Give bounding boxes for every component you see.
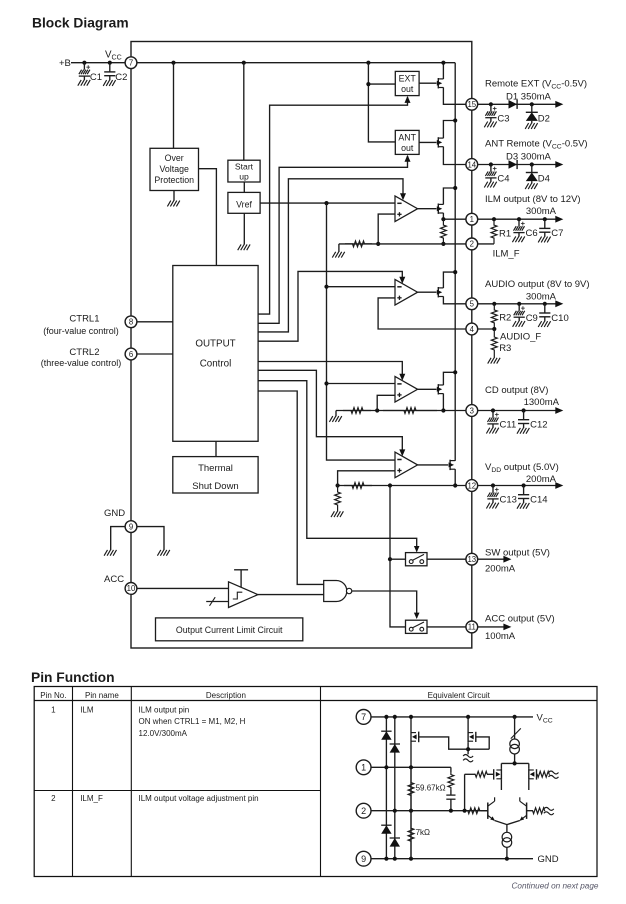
- equiv junction C2: [409, 809, 413, 813]
- wire pin4 output: [477, 328, 494, 330]
- switch ACC: [406, 620, 428, 633]
- svg-text:Shut Down: Shut Down: [192, 481, 238, 492]
- pin 15: [466, 98, 478, 110]
- svg-text:AUDIO_F: AUDIO_F: [500, 332, 541, 343]
- svg-text:1: 1: [470, 215, 474, 224]
- resistor CD out-side: [383, 408, 437, 414]
- svg-text:C12: C12: [530, 420, 547, 431]
- arrow into CD opamp: [399, 374, 405, 381]
- svg-text:10: 10: [127, 584, 136, 593]
- svg-text:ANT Remote (VCC-0.5V): ANT Remote (VCC-0.5V): [485, 139, 588, 151]
- diode D3: [509, 160, 518, 169]
- junction OVP tap: [171, 61, 175, 65]
- pin 8 CTRL1: [125, 316, 137, 328]
- gate NAND: [324, 581, 347, 602]
- svg-text:R1: R1: [499, 229, 511, 240]
- block Output Current Limit Circuit: [156, 618, 303, 641]
- junction C10: [543, 302, 547, 306]
- svg-text:CTRL1: CTRL1: [69, 314, 99, 325]
- transistor Q left: [487, 803, 489, 819]
- svg-text:9: 9: [129, 522, 133, 531]
- wire ILM drain: [443, 188, 455, 205]
- transistor VDD: [449, 460, 451, 470]
- wire AUDIO drain: [443, 272, 455, 288]
- equiv wire GND: [371, 858, 533, 860]
- ground CD feedback: [335, 411, 337, 417]
- svg-text:200mA: 200mA: [485, 564, 516, 575]
- equiv junction B2: [393, 809, 397, 813]
- wire diff left gate: [465, 773, 476, 775]
- svg-text:Control: Control: [200, 359, 232, 370]
- svg-text:ILM_F: ILM_F: [493, 249, 520, 260]
- wire OVP drop: [173, 63, 175, 149]
- table col1 line: [72, 687, 74, 877]
- capacitor C4: [490, 165, 492, 172]
- capacitor C10: [544, 304, 546, 313]
- wire CD source to pin3: [443, 394, 466, 411]
- wire enable EXT: [258, 97, 407, 314]
- svg-text:5: 5: [470, 300, 475, 309]
- wire pin2 output: [477, 243, 494, 245]
- equiv diode A-bottom: [381, 825, 391, 834]
- junction C13: [491, 483, 495, 487]
- equiv pin 2: [356, 803, 371, 818]
- wire ref vertical: [327, 203, 396, 460]
- junction C11: [491, 408, 495, 412]
- capacitor C11: [492, 411, 494, 418]
- wire EXT gate: [419, 82, 436, 84]
- svg-text:R3: R3: [499, 343, 511, 354]
- wire comparator out: [258, 594, 324, 596]
- wire control-thermal: [215, 441, 217, 456]
- svg-text:3: 3: [470, 406, 474, 415]
- svg-text:GND: GND: [104, 508, 125, 519]
- svg-text:ILM output (8V to 12V): ILM output (8V to 12V): [485, 194, 581, 205]
- transistor ANT: [437, 137, 439, 147]
- current source CS2: [502, 832, 512, 842]
- svg-text:300mA: 300mA: [526, 206, 557, 217]
- wire ILM_F line: [339, 243, 466, 245]
- current source CS1: [514, 717, 516, 739]
- wire EXT/ANT supply: [368, 63, 395, 142]
- svg-text:VCC: VCC: [537, 713, 553, 725]
- wire startup-vref: [243, 182, 245, 192]
- svg-text:D3 300mA: D3 300mA: [506, 152, 552, 163]
- wire M2 gate: [476, 737, 489, 749]
- pin 3: [466, 405, 478, 417]
- IC boundary box: [131, 42, 472, 649]
- wire pin13 output: [477, 558, 505, 560]
- pin 5: [466, 298, 478, 310]
- svg-text:100mA: 100mA: [485, 631, 516, 642]
- junction CD feedback: [375, 408, 379, 412]
- arrow into ILM opamp: [400, 193, 406, 200]
- resistor R2: [491, 304, 497, 329]
- junction ILM feedback: [376, 242, 380, 246]
- equiv diode A-top: [381, 731, 391, 740]
- comparator ACC detect: [229, 582, 258, 608]
- svg-text:1: 1: [51, 706, 56, 715]
- wire pin8: [137, 321, 173, 323]
- svg-text:11: 11: [468, 623, 476, 632]
- junction VDD feedback: [336, 483, 340, 487]
- equiv junction A9: [384, 857, 388, 861]
- svg-text:C4: C4: [497, 174, 509, 185]
- diode D4: [531, 165, 533, 173]
- junction ref line: [324, 201, 328, 205]
- equiv pin 9: [356, 851, 371, 866]
- junction D4: [530, 162, 534, 166]
- wire CD plus input: [377, 395, 395, 410]
- svg-text:13: 13: [467, 555, 476, 564]
- wire enable ANT: [258, 156, 407, 323]
- junction R1: [492, 217, 496, 221]
- junction startup tap: [242, 61, 246, 65]
- junction C14: [522, 483, 526, 487]
- pin 1: [466, 213, 478, 225]
- svg-text:(three-value control): (three-value control): [41, 358, 122, 368]
- table frame: [34, 687, 597, 877]
- svg-text:AUDIO output (8V to 9V): AUDIO output (8V to 9V): [485, 279, 590, 290]
- wire ANT source to pin14: [443, 147, 466, 165]
- svg-text:Pin No.: Pin No.: [40, 691, 66, 700]
- svg-text:9: 9: [361, 854, 366, 864]
- wire enable AUDIO: [258, 271, 402, 341]
- junction ref AUDIO: [324, 285, 328, 289]
- svg-text:7: 7: [361, 712, 366, 722]
- svg-text:1: 1: [361, 763, 366, 773]
- junction EXT drain: [441, 61, 445, 65]
- op-amp CD: [395, 377, 418, 403]
- equiv junction B7: [393, 715, 397, 719]
- junction CD source: [441, 408, 445, 412]
- svg-text:15: 15: [467, 100, 476, 109]
- block OUTPUT Control: [173, 266, 258, 442]
- capacitor C3: [490, 104, 492, 111]
- equiv diode B-top: [390, 744, 400, 753]
- svg-text:2: 2: [470, 240, 474, 249]
- svg-text:Thermal: Thermal: [198, 463, 233, 474]
- svg-text:OUTPUT: OUTPUT: [195, 339, 235, 350]
- transistor CD: [437, 384, 439, 394]
- junction R3 top: [492, 327, 496, 331]
- svg-text:2: 2: [51, 794, 56, 803]
- junction ANT drain rail: [453, 118, 457, 122]
- wire pin6: [137, 353, 173, 355]
- wire ref to CD minus: [327, 383, 395, 385]
- wire ACC out: [427, 626, 466, 628]
- transistor EXT: [437, 78, 439, 88]
- ground Vref: [243, 213, 245, 244]
- wire pin12 output: [477, 485, 556, 487]
- svg-text:Pin Function: Pin Function: [31, 670, 115, 685]
- junction ILM source: [441, 217, 445, 221]
- junction EXT supply tap: [366, 61, 370, 65]
- wire diff common: [501, 762, 528, 764]
- svg-text:C1: C1: [90, 72, 102, 83]
- svg-text:(four-value control): (four-value control): [43, 326, 119, 336]
- svg-text:Vref: Vref: [236, 200, 252, 210]
- svg-text:12.0V/300mA: 12.0V/300mA: [139, 729, 188, 738]
- wire OVP to output control: [199, 169, 217, 266]
- svg-text:Pin name: Pin name: [85, 691, 119, 700]
- svg-text:Equivalent Circuit: Equivalent Circuit: [428, 691, 491, 700]
- wire VDD plus input: [338, 471, 395, 486]
- ground ILM_F: [338, 244, 340, 252]
- resistor 59.67k: [408, 767, 414, 810]
- svg-text:D4: D4: [538, 174, 550, 185]
- pin 4: [466, 323, 478, 335]
- equiv junction gate pin2: [463, 809, 467, 813]
- squiggle diff right: [549, 771, 559, 774]
- junction ILM res bottom: [441, 242, 445, 246]
- wire AUDIO plus input: [378, 298, 466, 329]
- svg-text:D1 350mA: D1 350mA: [506, 92, 552, 103]
- transistor ILM: [437, 204, 439, 214]
- junction CD drain rail: [453, 370, 457, 374]
- svg-text:Over: Over: [165, 153, 184, 163]
- ground OVP: [173, 191, 175, 201]
- equiv rail C: [410, 717, 412, 859]
- ground R3: [488, 358, 491, 364]
- transistor diff right: [528, 763, 530, 769]
- equiv junction D2: [449, 809, 453, 813]
- pin 14: [466, 159, 478, 171]
- capacitor C14: [523, 486, 525, 495]
- pin 11: [466, 621, 478, 633]
- block ANT out: [395, 130, 419, 154]
- table header line: [34, 700, 597, 702]
- svg-text:GND: GND: [538, 854, 559, 865]
- svg-text:VDD output (5.0V): VDD output (5.0V): [485, 462, 559, 474]
- junction AUDIO drain rail: [453, 270, 457, 274]
- junction D2: [530, 102, 534, 106]
- pin 2: [466, 238, 478, 250]
- junction C4: [489, 162, 493, 166]
- block Vref: [228, 192, 260, 213]
- capacitor C13: [492, 486, 494, 493]
- svg-text:up: up: [239, 171, 249, 181]
- wire switch supply: [390, 486, 406, 627]
- resistor 7k: [408, 811, 414, 859]
- equiv junction CS1: [513, 715, 517, 719]
- svg-text:CTRL2: CTRL2: [69, 347, 99, 358]
- diode D1: [509, 100, 518, 109]
- svg-text:12: 12: [467, 481, 476, 490]
- svg-text:EXT: EXT: [399, 74, 417, 84]
- junction C6: [517, 217, 521, 221]
- svg-text:Protection: Protection: [154, 175, 194, 185]
- svg-text:Remote EXT (VCC-0.5V): Remote EXT (VCC-0.5V): [485, 79, 587, 91]
- wire VDD feedback line: [338, 485, 456, 487]
- wire NAND out to ACC switch: [352, 591, 417, 618]
- wire M2 source: [467, 742, 469, 754]
- junction C7: [543, 217, 547, 221]
- equiv wire pin2: [371, 810, 488, 812]
- equiv junction C1: [409, 765, 413, 769]
- svg-text:ILM output voltage adjustment: ILM output voltage adjustment pin: [139, 794, 259, 803]
- resistor R3: [491, 329, 497, 358]
- svg-text:C13: C13: [500, 495, 517, 506]
- wire Vref output: [260, 202, 395, 204]
- transistor M2: [467, 717, 469, 732]
- wire ILM gate: [418, 208, 437, 210]
- wire pin10: [137, 587, 229, 589]
- junction VDD source: [453, 483, 457, 487]
- svg-text:C7: C7: [551, 228, 563, 239]
- transistor diff left: [500, 763, 502, 769]
- svg-text:Continued on next page: Continued on next page: [512, 882, 599, 891]
- resistor VDD gnd: [335, 486, 341, 512]
- wire Q right base: [527, 810, 533, 812]
- transistor AUDIO: [437, 287, 439, 297]
- wire CD feedback line: [336, 410, 443, 412]
- svg-text:ACC output (5V): ACC output (5V): [485, 614, 555, 625]
- equiv wire pin1: [371, 766, 451, 768]
- svg-text:Description: Description: [206, 691, 246, 700]
- arrow into EXT out: [405, 96, 411, 103]
- wire pin14 output: [477, 164, 556, 166]
- junction C9: [517, 302, 521, 306]
- wire ref to AUDIO minus: [327, 286, 395, 288]
- capacitor C1: [83, 63, 85, 70]
- equiv junction C9: [409, 857, 413, 861]
- svg-text:ILM_F: ILM_F: [80, 794, 103, 803]
- squiggle M2 source: [463, 755, 473, 758]
- pin 9 GND: [125, 521, 137, 533]
- wire CD gate: [418, 388, 437, 390]
- capacitor C7: [544, 219, 546, 228]
- junction C12: [522, 408, 526, 412]
- resistor ILM internal: [441, 219, 447, 244]
- resistor R1: [491, 219, 497, 244]
- junction ILM drain rail: [453, 186, 457, 190]
- junction R2: [492, 302, 496, 306]
- equiv pin 7: [356, 710, 371, 725]
- svg-text:8: 8: [129, 318, 133, 327]
- transistor M1: [411, 732, 416, 734]
- equiv branch RC: [450, 767, 452, 772]
- wire M1 gate: [419, 737, 490, 749]
- wire ILM plus input: [378, 214, 395, 244]
- ground pin9 right: [157, 550, 160, 556]
- junction ref CD: [324, 381, 328, 385]
- table row divider: [34, 790, 320, 792]
- svg-text:ACC: ACC: [104, 574, 124, 585]
- equiv rail A: [385, 717, 387, 859]
- equiv junction diff: [513, 761, 517, 765]
- wire ANT gate: [419, 141, 436, 143]
- block Over Voltage Protection: [150, 148, 199, 190]
- svg-text:ON when CTRL1 = M1, M2, H: ON when CTRL1 = M1, M2, H: [139, 717, 246, 726]
- capacitor C6: [518, 219, 520, 226]
- svg-text:out: out: [401, 84, 414, 94]
- pin 10 ACC: [125, 583, 137, 595]
- arrow into ANT out: [405, 155, 411, 162]
- svg-text:SW output (5V): SW output (5V): [485, 548, 550, 559]
- ground VDD feedback: [331, 511, 334, 517]
- equiv junction A7: [384, 715, 388, 719]
- wire emitters: [495, 821, 520, 825]
- equiv wire VCC: [371, 716, 533, 718]
- squiggle Q right base: [544, 807, 554, 810]
- wire diff right gate: [537, 773, 538, 775]
- arrow into VDD opamp: [399, 449, 405, 456]
- op-amp AUDIO: [395, 279, 418, 305]
- wire left gate to pin2: [464, 774, 466, 810]
- svg-text:6: 6: [129, 350, 133, 359]
- svg-text:200mA: 200mA: [526, 474, 557, 485]
- capacitor C9: [518, 304, 520, 311]
- svg-text:Voltage: Voltage: [160, 164, 189, 174]
- wire CD drain: [443, 372, 455, 385]
- wire pin3 output: [477, 410, 556, 412]
- capacitor C12: [523, 411, 525, 420]
- svg-text:CD output (8V): CD output (8V): [485, 385, 548, 396]
- svg-text:ILM output pin: ILM output pin: [139, 706, 190, 715]
- wire EXT drain: [442, 63, 444, 79]
- svg-text:1300mA: 1300mA: [524, 397, 560, 408]
- resistor CD gnd-side: [343, 408, 371, 414]
- wire VDD gate: [418, 464, 449, 466]
- wire pin15 output: [477, 103, 556, 105]
- svg-text:C10: C10: [551, 313, 568, 324]
- block Start up: [228, 160, 260, 182]
- pin 7 VCC: [125, 57, 137, 69]
- equiv junction CS2: [505, 857, 509, 861]
- wire AUDIO gate: [418, 291, 437, 293]
- svg-text:C2: C2: [115, 72, 127, 83]
- svg-text:Block Diagram: Block Diagram: [32, 16, 129, 31]
- wire ANT drain: [443, 121, 455, 139]
- junction EXT/ANT branch: [366, 82, 370, 86]
- svg-text:C3: C3: [497, 113, 509, 124]
- block EXT out: [395, 71, 419, 95]
- op-amp VDD: [395, 452, 418, 478]
- svg-text:C6: C6: [526, 228, 538, 239]
- equiv junction C7: [409, 715, 413, 719]
- junction C1 tap: [82, 61, 86, 65]
- junction C2 tap: [108, 61, 112, 65]
- svg-text:59.67kΩ: 59.67kΩ: [416, 784, 446, 793]
- wire pin5 output: [477, 303, 556, 305]
- svg-text:C11: C11: [500, 420, 517, 431]
- svg-text:VCC: VCC: [105, 50, 122, 62]
- transistor Q right: [526, 803, 528, 819]
- wire to NAND input: [258, 391, 324, 584]
- svg-text:300mA: 300mA: [526, 292, 557, 303]
- block Thermal Shut Down: [173, 457, 258, 493]
- svg-text:out: out: [401, 143, 414, 153]
- ground pin9 left: [104, 550, 107, 556]
- wire pin1 output: [477, 218, 556, 220]
- wire enable VDD: [258, 370, 402, 454]
- wire pin11 output: [477, 626, 505, 628]
- svg-text:D2: D2: [538, 113, 550, 124]
- svg-text:+B: +B: [59, 58, 71, 69]
- equiv diode B-bottom: [390, 838, 400, 847]
- wire ILM source to pin1: [443, 213, 466, 219]
- wire SW switch feed: [390, 558, 406, 560]
- pin 6 CTRL2: [125, 348, 137, 360]
- table col3 line: [320, 687, 322, 877]
- pin 12: [466, 480, 478, 492]
- svg-text:4: 4: [470, 325, 475, 334]
- wire AUDIO source to pin5: [443, 296, 466, 303]
- switch SW: [406, 553, 428, 566]
- table col2 line: [130, 687, 132, 877]
- svg-text:ANT: ANT: [398, 133, 416, 143]
